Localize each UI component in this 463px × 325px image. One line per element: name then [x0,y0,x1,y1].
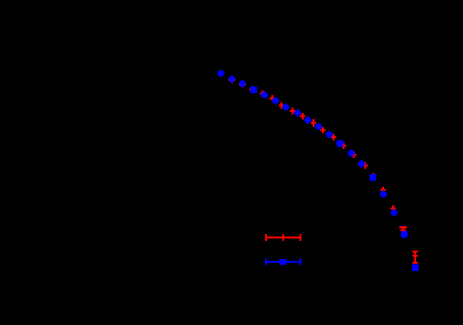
red data point P14 with error bar [363,162,368,169]
red data point P13 with error bar [351,152,356,159]
blue data point S13 [347,149,355,157]
red data point P19 with error bar [412,252,418,263]
blue data point S10 [315,123,323,131]
blue data point S1 [217,70,225,78]
red data point P12 with error bar [341,142,346,149]
blue data point S9 [304,116,312,124]
blue data point S2 [228,75,236,83]
red data point P16 with error bar [380,187,385,194]
red data point P10 with error bar [320,127,325,134]
red data point P17 with error bar [391,205,396,212]
legend entry 1: red errorbar sample [266,234,300,241]
red data point P2 with error bar [240,81,245,88]
blue data point S11 [325,131,333,139]
blue data point S18 [401,231,409,239]
blue data point S17 [390,209,398,217]
red data point P18 with error bar [399,227,406,234]
blue data point S19 [412,264,419,271]
blue data point S7 [282,103,290,111]
blue data series: star markers [217,70,419,271]
blue data point S5 [261,91,269,99]
blue data point S14 [358,160,366,168]
red data point P6 with error bar [279,102,284,109]
blue data point S3 [239,80,247,88]
red data point P15 with error bar [371,173,376,180]
red data point P7 with error bar [290,108,295,115]
blue data point S15 [370,174,377,181]
red data point P5 with error bar [270,95,275,102]
red plus arms visible around early points [229,79,235,81]
legend entry 2: blue errorbar sample with square marker [266,258,300,265]
red data point P3 with error bar [249,86,254,93]
red data point P8 with error bar [300,113,305,120]
red data point P9 with error bar [311,119,316,127]
blue data point S6 [272,97,280,105]
red data point P1 with error bar [229,77,234,84]
blue data point S16 [380,190,388,198]
red data series: pluses with error bars [229,77,418,263]
blue data point S8 [294,109,302,117]
blue data point S12 [336,140,344,148]
red data point P4 with error bar [260,90,265,97]
blue data point S4 [250,86,257,93]
red data point P11 with error bar [331,134,336,141]
